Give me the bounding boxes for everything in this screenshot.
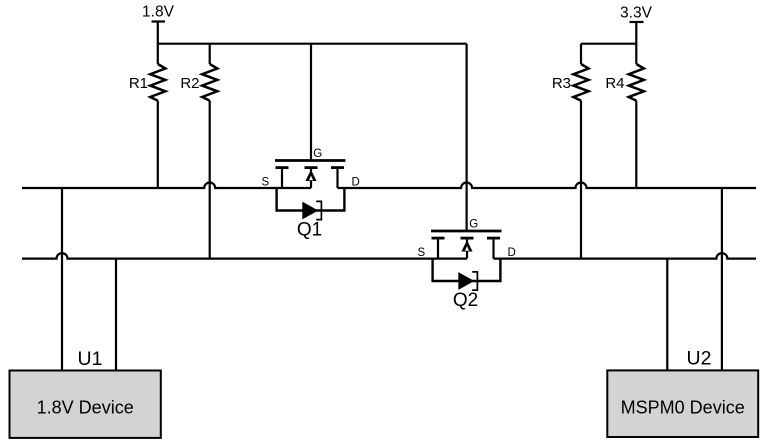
svg-text:R3: R3	[552, 75, 571, 92]
svg-text:D: D	[352, 177, 360, 189]
svg-text:D: D	[508, 247, 516, 259]
svg-text:U2: U2	[687, 348, 712, 370]
wire bus1 right segment (hops over Q2 gate and R3)	[338, 183, 757, 188]
label U1	[78, 348, 103, 370]
label U2	[687, 348, 712, 370]
resistor R1	[129, 44, 166, 188]
resistor R2	[180, 44, 217, 259]
wire 3.3V rail	[581, 43, 636, 45]
box U2 MSPM0 Device	[607, 370, 758, 437]
wire bus2 right segment (hop over device wire)	[494, 253, 757, 258]
svg-text:Q1: Q1	[297, 220, 322, 241]
svg-text:S: S	[418, 247, 426, 259]
svg-text:1.8V Device: 1.8V Device	[37, 398, 134, 418]
svg-text:R4: R4	[605, 75, 624, 92]
power 3.3V	[620, 5, 653, 45]
transistor Q2	[418, 219, 516, 312]
svg-text:R1: R1	[129, 75, 148, 92]
wire U2 bus2 lead	[666, 259, 668, 371]
svg-text:1.8V: 1.8V	[142, 4, 175, 21]
svg-text:G: G	[469, 219, 478, 231]
svg-text:Q2: Q2	[453, 290, 478, 311]
svg-text:S: S	[262, 177, 270, 189]
svg-text:G: G	[313, 148, 322, 160]
svg-text:MSPM0 Device: MSPM0 Device	[621, 398, 745, 418]
wire U1 bus2 lead	[115, 259, 117, 371]
svg-text:R2: R2	[180, 75, 199, 92]
wire bus1 left segment (hop over R2)	[22, 183, 311, 188]
wire bus2 left segment (hop over device wire)	[22, 253, 467, 258]
svg-text:3.3V: 3.3V	[620, 5, 653, 22]
power 1.8V	[142, 4, 175, 45]
resistor R3	[552, 44, 589, 259]
wire U1 bus1 lead	[61, 188, 63, 371]
svg-text:U1: U1	[78, 348, 103, 370]
wire U2 bus1 lead	[721, 188, 723, 371]
wire Q2 gate drop	[466, 44, 468, 232]
wire top rail 1.8V	[158, 43, 467, 45]
transistor Q1	[262, 44, 360, 241]
resistor R4	[605, 44, 644, 188]
box U1 1.8V Device	[10, 371, 161, 438]
